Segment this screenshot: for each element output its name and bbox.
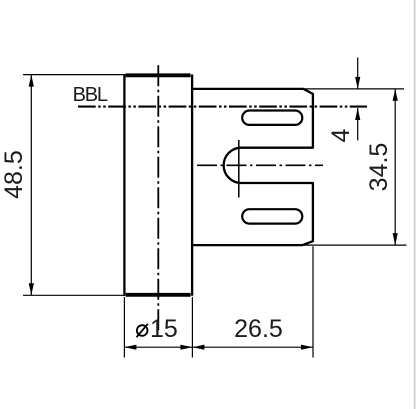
dim 34.5 arrow up bbox=[393, 89, 398, 101]
dim 15 value label bbox=[150, 315, 178, 343]
dim 34.5 value label bbox=[365, 143, 393, 192]
dim 48.5 arrow up bbox=[29, 75, 34, 87]
dim 48.5 dimension line bbox=[30, 75, 32, 296]
right container border bbox=[414, 0, 416, 409]
dim 4 value label bbox=[327, 129, 355, 143]
top slot bbox=[242, 111, 302, 125]
svg-text:BBL: BBL bbox=[73, 84, 108, 106]
svg-text:15: 15 bbox=[150, 315, 178, 343]
dim 26.5 right extension line bbox=[312, 246, 314, 357]
dim 26.5 arrow right bbox=[301, 345, 313, 350]
dim 48.5 top extension line bbox=[23, 74, 127, 76]
barrel top cap bbox=[126, 73, 191, 77]
barrel vertical centerline bbox=[157, 65, 159, 330]
plate outline with chamfers and open notch bbox=[193, 89, 313, 245]
svg-text:4: 4 bbox=[327, 129, 355, 143]
dim 26.5 dimension line bbox=[192, 346, 313, 348]
dim 4 lower dimension line with arrow up bbox=[355, 108, 360, 140]
svg-text:34.5: 34.5 bbox=[365, 143, 393, 192]
notch horizontal centerline bbox=[197, 164, 323, 166]
svg-text:48.5: 48.5 bbox=[0, 150, 28, 199]
dim diameter-15 arrow left bbox=[124, 345, 136, 350]
barrel left edge bbox=[123, 75, 125, 296]
dim 4 upper dimension line with arrow down bbox=[355, 57, 360, 89]
shared middle extension line bbox=[191, 297, 193, 358]
dim diameter-15 left extension line bbox=[123, 297, 125, 358]
dim 34.5 bottom extension line bbox=[303, 244, 407, 246]
dim 48.5 bottom extension line bbox=[23, 294, 125, 296]
dim 34.5 arrow down bbox=[393, 233, 398, 245]
dim diameter-15 arrow right bbox=[180, 345, 192, 350]
dim 34.5 top extension line bbox=[303, 88, 404, 90]
bottom slot bbox=[242, 209, 302, 223]
dim 48.5 value label bbox=[0, 150, 28, 199]
barrel right edge bbox=[191, 75, 193, 296]
dim 34.5 dimension line bbox=[394, 89, 396, 245]
diameter symbol bbox=[137, 324, 148, 337]
dim diameter-15 dimension line bbox=[124, 346, 192, 348]
svg-text:26.5: 26.5 bbox=[234, 315, 283, 343]
BBL label bbox=[73, 84, 108, 106]
notch vertical centerline bbox=[238, 140, 240, 198]
dim 48.5 arrow down bbox=[29, 283, 34, 295]
BBL phantom line (dash-dot-dot) bbox=[78, 106, 367, 108]
barrel bottom cap bbox=[126, 293, 191, 297]
dim 26.5 value label bbox=[234, 315, 283, 343]
dim 26.5 arrow left bbox=[192, 345, 204, 350]
